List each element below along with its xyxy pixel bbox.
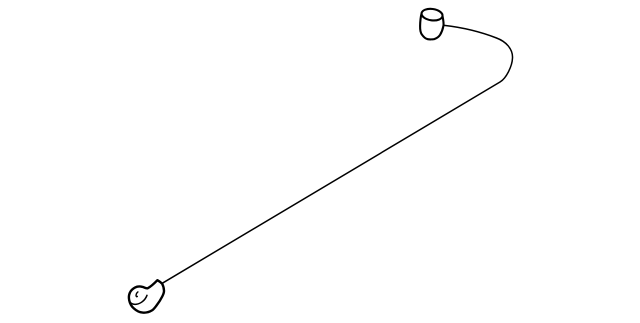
eyelet hole mark <box>136 292 138 297</box>
cylinder cap <box>420 8 443 40</box>
eyelet inner arc <box>130 295 147 304</box>
wire <box>162 25 512 283</box>
eyelet terminal <box>129 280 164 312</box>
